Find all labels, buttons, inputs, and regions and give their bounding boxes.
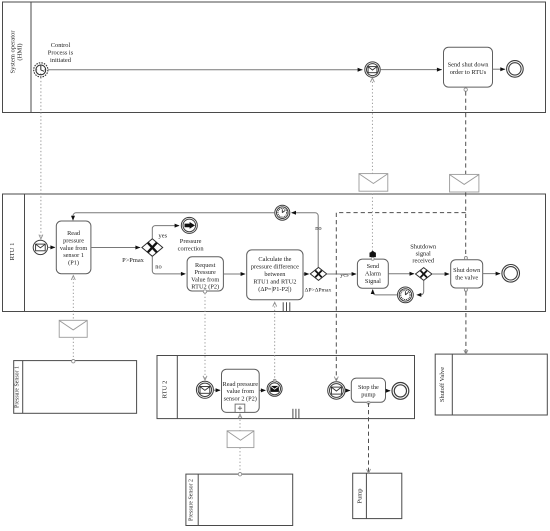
message start event (RTU 1) xyxy=(33,240,47,254)
svg-text:RTU1 and RTU2: RTU1 and RTU2 xyxy=(253,279,296,286)
sequence flow: timer start to message catch xyxy=(48,68,363,72)
pool: Pressure Sensor 2 box xyxy=(186,474,293,525)
svg-text:RTU 2: RTU 2 xyxy=(162,381,169,399)
svg-text:sensor 2 (P2): sensor 2 (P2) xyxy=(224,395,257,402)
svg-text:RTU 1: RTU 1 xyxy=(9,243,16,261)
message flow: shut down order, HMI task down to Shut down valve task xyxy=(465,91,467,256)
gateway: P>Pmax (XOR) xyxy=(142,239,163,256)
connection point: Request task bottom xyxy=(203,290,206,293)
svg-text:Process is: Process is xyxy=(48,50,74,57)
svg-text:Pump: Pump xyxy=(357,489,364,504)
svg-text:Read pressure: Read pressure xyxy=(223,381,259,388)
svg-text:ΔP>ΔPmax: ΔP>ΔPmax xyxy=(305,287,332,293)
end event (RTU 1) xyxy=(502,265,520,283)
svg-text:Send shut down: Send shut down xyxy=(448,62,490,69)
svg-text:Pressure: Pressure xyxy=(195,269,217,276)
connection point: Stop the pump task bottom xyxy=(367,401,370,404)
svg-text:received: received xyxy=(412,258,434,265)
link throw event: Pressure correction xyxy=(181,217,197,233)
pool: Pump box xyxy=(353,473,402,518)
task: Stop the pump xyxy=(351,378,385,402)
sequence flow: Shut down valve task to RTU1 end event xyxy=(483,272,501,276)
sequence flow: Read task to gateway P>Pmax xyxy=(91,246,140,250)
lane continuation marks (RTU 2) xyxy=(293,409,299,419)
sequence flow: gateway shutdown yes to Shut down the valve task xyxy=(432,272,450,276)
svg-text:pump: pump xyxy=(361,391,375,398)
label: Control Process is initiated xyxy=(48,42,74,64)
svg-text:Control: Control xyxy=(51,42,71,49)
subprocess marker: + box under Read sensor 2 task xyxy=(235,404,245,412)
sequence flow: gateway dP no up to wait timer xyxy=(291,211,318,267)
pool: Shutoff Valve box xyxy=(435,354,547,415)
intermediate message catch event (HMI) xyxy=(365,62,380,77)
svg-text:order to RTUs: order to RTUs xyxy=(450,69,487,76)
task: Send shut down order to RTUs xyxy=(444,47,493,87)
pool: Pressure Sensor 1 box xyxy=(14,361,137,414)
svg-text:Shutoff Valve: Shutoff Valve xyxy=(439,367,446,402)
svg-text:Pressure Sensor 1: Pressure Sensor 1 xyxy=(14,366,20,408)
svg-text:the valve: the valve xyxy=(455,274,478,281)
task: Read pressure value from sensor 1 (P1) xyxy=(56,221,91,274)
message envelope: shut down order xyxy=(450,174,479,192)
svg-text:Signal: Signal xyxy=(365,278,381,285)
gateway: Shutdown signal received (XOR) xyxy=(416,268,432,281)
svg-text:(HMI): (HMI) xyxy=(17,43,24,60)
svg-text:initiated: initiated xyxy=(50,57,72,64)
message flow: Request task down to RTU2 catch 1 xyxy=(203,293,207,380)
task: Read pressure value from sensor 2 (P2) xyxy=(222,369,260,412)
sequence flow: wait timer back to Read task top xyxy=(71,213,275,221)
end event (RTU 2) xyxy=(392,383,409,400)
message flow: HMI timer start to RTU1 message start xyxy=(39,77,43,239)
sequence flow: Read sensor 2 task to message throw event xyxy=(259,388,266,392)
message flow: Shut down valve task down to Shutoff Valve pool xyxy=(464,291,468,354)
lane: RTU 2 frame xyxy=(157,356,415,419)
svg-text:yes: yes xyxy=(159,232,168,239)
connection point: RTU2 throw event top xyxy=(273,379,276,382)
message throw event (RTU 2, filled envelope) xyxy=(267,381,282,396)
sequence flow: start to Read pressure task xyxy=(48,245,56,249)
timer intermediate event 2: wait for shutdown xyxy=(398,287,414,303)
task: Send Alarm Signal xyxy=(357,259,388,288)
sequence flow: timer 2 back to Send Alarm task bottom xyxy=(371,289,398,295)
svg-text:Send: Send xyxy=(367,263,380,270)
task: Request Pressure Value from RTU2 (P2) xyxy=(187,257,223,291)
sequence flow: Calculate task to gateway dP xyxy=(303,272,309,276)
message flow: Send Alarm Signal up to HMI message catch xyxy=(370,78,374,251)
message marker: black envelope on Send Alarm task top xyxy=(370,251,376,257)
sequence flow: Request task to Calculate task xyxy=(223,272,245,276)
svg-text:sensor 1: sensor 1 xyxy=(63,252,84,259)
message flow: Pressure Sensor 1 up to Read sensor 1 task xyxy=(71,276,75,361)
sequence flow: gateway shutdown down to timer 2 xyxy=(416,281,423,297)
connection point: Pressure Sensor 1 box top xyxy=(72,360,75,363)
gateway: dP>dPmax (XOR) xyxy=(310,267,326,280)
svg-text:Read: Read xyxy=(67,230,81,237)
message catch event 1 (RTU 2) xyxy=(196,381,213,398)
message envelope: alarm signal xyxy=(359,174,388,192)
message flow: shut down order branch to RTU2 catch 2 xyxy=(334,213,465,381)
connection point: Send shut down task bottom xyxy=(464,88,467,91)
svg-text:Shutdown: Shutdown xyxy=(410,244,437,251)
sequence flow: gateway yes to Pressure correction link event xyxy=(152,224,179,239)
connection point: Send Alarm task top xyxy=(371,257,374,260)
lane label: System operator (HMI) xyxy=(10,30,24,74)
svg-text:Alarm: Alarm xyxy=(365,270,381,277)
label: Shutdown signal received xyxy=(410,244,437,265)
task: Calculate the pressure difference between RTU1 and RTU2 xyxy=(247,250,303,300)
task: Shut down the valve xyxy=(451,260,483,288)
svg-text:(ΔP=|P1-P2|): (ΔP=|P1-P2|) xyxy=(258,286,291,293)
message flow: Stop the pump down to Pump pool xyxy=(367,403,371,474)
svg-text:Value from: Value from xyxy=(191,276,219,283)
svg-text:between: between xyxy=(264,271,286,278)
sequence flow: Send Alarm task to gateway shutdown xyxy=(388,272,414,276)
svg-text:signal: signal xyxy=(416,251,431,258)
svg-text:Calculate the: Calculate the xyxy=(258,256,291,263)
lane continuation marks (RTU 1) xyxy=(283,302,290,311)
sequence flow: message catch to Send shut down order task xyxy=(380,68,442,72)
svg-text:yes: yes xyxy=(340,271,349,278)
svg-text:System operator: System operator xyxy=(10,30,17,74)
connection point: Pressure Sensor 2 box top xyxy=(238,473,241,476)
svg-text:Pressure: Pressure xyxy=(180,238,202,245)
svg-text:Request: Request xyxy=(195,262,216,269)
sequence flow: catch 1 to Read sensor 2 task xyxy=(213,388,220,392)
timer start event: Control Process is initiated xyxy=(34,63,48,77)
sequence flow: catch 2 to Stop the pump task xyxy=(345,389,350,393)
svg-text:pressure: pressure xyxy=(63,238,84,245)
end event (HMI) xyxy=(507,61,524,78)
svg-text:correction: correction xyxy=(178,245,205,252)
svg-text:value from: value from xyxy=(60,245,88,252)
svg-text:value from: value from xyxy=(227,388,255,395)
lane: RTU 1 frame xyxy=(3,194,546,312)
sequence flow: Stop the pump to RTU2 end event xyxy=(386,389,391,393)
message envelope: sensor 1 data xyxy=(59,320,87,337)
svg-text:Pressure Sensor 2: Pressure Sensor 2 xyxy=(188,479,194,521)
svg-text:P>Pmax: P>Pmax xyxy=(122,257,145,264)
label: Pressure correction xyxy=(178,238,205,252)
sequence flow: task to HMI end event xyxy=(493,67,506,71)
lane: System operator (HMI) frame xyxy=(3,2,546,113)
svg-text:no: no xyxy=(155,264,161,271)
timer intermediate event: wait (loop) xyxy=(275,205,290,220)
message flow: RTU2 throw event up to Calculate task xyxy=(273,302,277,381)
message flow: Pressure Sensor 2 up to Read sensor 2 task xyxy=(238,414,242,473)
message envelope: sensor 2 data xyxy=(227,431,254,448)
svg-text:pressure difference: pressure difference xyxy=(251,264,299,271)
message catch event 2 (RTU 2, shutdown order) xyxy=(328,382,345,399)
svg-text:Stop the: Stop the xyxy=(358,384,379,391)
connection point: Shut down valve task top xyxy=(464,257,467,260)
connection point: Shut down valve task bottom xyxy=(464,288,467,291)
svg-text:(P1): (P1) xyxy=(68,259,79,266)
svg-text:Shut down: Shut down xyxy=(453,267,481,274)
sequence flow: gateway no to Request task xyxy=(152,257,186,276)
sequence flow: gateway dP yes to Send Alarm task xyxy=(327,272,357,276)
